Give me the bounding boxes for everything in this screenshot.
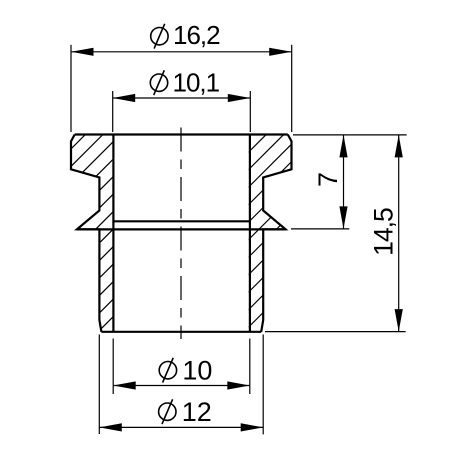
bore wall right <box>249 135 251 332</box>
barb underside edge <box>77 228 286 230</box>
svg-text:7: 7 <box>313 172 343 187</box>
svg-text:16,2: 16,2 <box>173 20 220 50</box>
dimension D12 extension and dimension lines <box>99 335 263 435</box>
dimension D10,1 diameter symbol <box>150 70 167 95</box>
svg-text:14,5: 14,5 <box>368 208 398 256</box>
part outline, left profile (flange, barb, body wall) <box>71 135 101 332</box>
part bottom edge <box>101 331 261 333</box>
bore wall left <box>112 135 114 332</box>
dimension D16,2 diameter symbol <box>151 24 168 49</box>
dimension 14,5 extension and dimension lines <box>265 135 406 332</box>
section hatching, right wall (45 deg) <box>43 110 450 340</box>
dimension D10 arrowheads <box>113 381 136 389</box>
dimension D16,2 arrowheads <box>71 48 94 56</box>
dimension D10 diameter symbol <box>159 358 176 383</box>
dimension D10 extension and dimension lines <box>113 339 250 395</box>
dimension 7 extension and dimension lines <box>291 135 407 229</box>
dimension D12 arrowheads <box>99 423 122 431</box>
dimension 14,5 arrowheads <box>395 135 403 158</box>
svg-text:12: 12 <box>182 397 212 427</box>
part outline, right profile (flange, barb, body wall) <box>261 135 291 332</box>
part top edge <box>75 133 288 135</box>
dimension D10,1 extension and dimension lines <box>113 91 251 132</box>
bore step edge <box>113 220 250 222</box>
centerline (dash-dot) <box>180 128 182 340</box>
svg-text:10: 10 <box>182 356 212 386</box>
section hatching, left wall (45 deg) <box>0 110 337 340</box>
dimension D12 diameter symbol <box>159 399 176 424</box>
dimension D16,2 extension and dimension lines <box>71 45 292 132</box>
svg-text:10,1: 10,1 <box>172 68 219 98</box>
dimension D10,1 arrowheads <box>113 94 136 102</box>
dimension 7 arrowheads <box>339 135 347 158</box>
